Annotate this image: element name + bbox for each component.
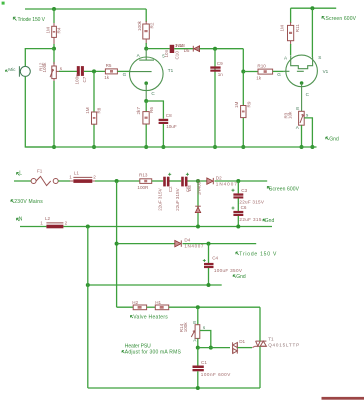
svg-text:R13: R13 — [139, 173, 148, 178]
wire D4 to Triode node — [183, 243, 257, 245]
svg-text:T1: T1 — [168, 68, 174, 73]
wire D3 column — [197, 181, 199, 227]
node junction C9 top — [213, 47, 217, 51]
wire Triode150V top rail — [25, 8, 146, 10]
node junction T1 anode — [144, 47, 148, 51]
capacitor C7 100n — [74, 66, 87, 84]
node junction wiper gate row — [209, 346, 213, 350]
svg-text:Screen 600V: Screen 600V — [269, 186, 300, 192]
svg-text:R5: R5 — [106, 63, 112, 68]
svg-text:F1: F1 — [37, 168, 43, 173]
svg-text:10uF: 10uF — [166, 124, 177, 129]
svg-text:22uF 315V: 22uF 315V — [157, 187, 162, 210]
net label Gnd (C6) — [263, 218, 274, 224]
svg-text:1k: 1k — [256, 75, 262, 80]
wire C6 to neutral — [237, 216, 239, 227]
wire cathode to C8 column — [146, 101, 163, 119]
resistor H1 — [155, 300, 169, 310]
node junction C6 neutral — [236, 225, 240, 229]
node junction D3 neutral — [196, 225, 200, 229]
svg-text:V1: V1 — [323, 69, 329, 74]
wire C4 column — [208, 244, 210, 263]
wire wiper row to C7 — [59, 70, 77, 72]
svg-text:Q4015LTTP: Q4015LTTP — [268, 342, 299, 347]
svg-text:Gnd: Gnd — [265, 218, 275, 224]
wire R2 column from top rail — [145, 9, 147, 22]
svg-text:1N4007: 1N4007 — [216, 181, 237, 186]
svg-text:Triode 150 V: Triode 150 V — [239, 252, 277, 258]
svg-text:1k: 1k — [104, 75, 110, 80]
wire live entry — [14, 180, 31, 182]
svg-text:C7: C7 — [82, 76, 87, 82]
svg-text:C4: C4 — [212, 255, 218, 260]
wire junction to R10 — [243, 71, 258, 73]
svg-text:C6: C6 — [241, 205, 247, 210]
net label N — [17, 216, 23, 222]
wire mid ground rail — [88, 284, 222, 286]
node junction grid row V1 — [241, 70, 245, 74]
wire H2 to H1 — [147, 306, 156, 308]
wire Screen600V top rail — [291, 7, 337, 9]
node junction at R4 top rail — [52, 7, 56, 11]
svg-text:100k: 100k — [42, 62, 47, 73]
svg-text:L: L — [19, 170, 22, 176]
svg-text:S: S — [318, 55, 321, 60]
svg-text:100k: 100k — [183, 322, 188, 333]
node junction C4 top — [207, 242, 211, 246]
svg-text:100nF 600V: 100nF 600V — [201, 372, 231, 377]
svg-text:D2: D2 — [216, 175, 222, 180]
node junction doubler — [196, 179, 200, 183]
capacitor C6 22uF 315V — [232, 205, 262, 222]
svg-text:100n: 100n — [74, 74, 79, 85]
svg-text:R11: R11 — [295, 24, 300, 33]
wire corner down to grid row V1 — [242, 49, 244, 72]
wire heater row start — [117, 306, 134, 308]
node junction pot bottom rail — [52, 145, 56, 149]
wire C8 bottom to rail — [162, 124, 164, 147]
wire C1 column — [197, 348, 199, 366]
wire pot R12 column — [53, 49, 55, 64]
wire D4 row — [117, 243, 175, 245]
stray green pixel top-left — [2, 2, 5, 5]
capacitor C5 22uF 315V — [175, 173, 190, 211]
svg-text:1M: 1M — [280, 25, 285, 32]
resistor R2 100k — [137, 20, 154, 39]
wire R13 to C2 — [152, 180, 164, 182]
resistor R10 1k — [256, 63, 272, 80]
svg-text:10k: 10k — [288, 111, 293, 119]
node junction C9 rail — [213, 145, 217, 149]
wire C9 column — [214, 49, 216, 147]
svg-text:R10: R10 — [257, 63, 266, 68]
svg-text:22uF 315V: 22uF 315V — [239, 199, 264, 204]
potentiometer R3 10k — [284, 106, 309, 130]
diode D4 1N4007 — [175, 238, 204, 249]
wire junction to mic column — [25, 49, 54, 67]
svg-text:C9: C9 — [217, 61, 223, 66]
capacitor C1 100nF 600V — [193, 360, 232, 377]
svg-text:L2: L2 — [45, 216, 51, 221]
node junction neutral drop — [86, 225, 90, 229]
resistor R8 1M — [85, 107, 102, 124]
capacitor C2 22uF 315V — [157, 173, 173, 211]
resistor R4 1M — [46, 26, 62, 37]
wire neutral entry — [20, 226, 46, 228]
svg-text:D3: D3 — [187, 185, 192, 191]
wire neutral drop to bottom rail — [87, 227, 89, 389]
svg-text:H2: H2 — [132, 300, 138, 305]
svg-text:E: E — [193, 320, 196, 325]
wire R9 column — [242, 72, 244, 148]
wire screen column into V1 — [311, 8, 313, 57]
svg-text:T1: T1 — [268, 337, 274, 342]
node junction R9 rail — [241, 145, 245, 149]
node junction mic/pot/R4 — [52, 47, 56, 51]
wire heater bottom rail — [88, 387, 260, 389]
svg-text:100k: 100k — [137, 20, 142, 31]
wire R6 column — [145, 101, 147, 147]
wire D2 to screen node — [215, 180, 268, 182]
diode D5 1N4148 — [175, 43, 200, 53]
pentode V1 — [277, 55, 328, 111]
svg-text:2: 2 — [93, 175, 96, 180]
svg-text:1n: 1n — [218, 72, 224, 77]
decor red bar bottom right — [322, 397, 364, 400]
node junction pot bottom — [196, 346, 200, 350]
svg-text:1: 1 — [69, 175, 72, 180]
wire C7 to R5 — [84, 70, 106, 72]
svg-text:100R: 100R — [137, 185, 149, 190]
node junction R3 rail — [300, 145, 304, 149]
wire triac MT1 down — [259, 346, 261, 388]
svg-text:R9: R9 — [246, 101, 251, 107]
potentiometer R14 100k — [179, 320, 206, 342]
svg-text:C2: C2 — [168, 186, 173, 192]
wire gate row to diac — [198, 347, 230, 349]
resistor R13 100R — [137, 173, 151, 190]
svg-text:D5: D5 — [184, 48, 190, 53]
svg-text:1M: 1M — [85, 107, 90, 114]
svg-text:E: E — [296, 106, 299, 111]
node junction C3 top — [236, 179, 240, 183]
svg-text:R4: R4 — [56, 27, 61, 33]
svg-text:2k7: 2k7 — [136, 107, 141, 115]
svg-text:10n: 10n — [164, 49, 169, 57]
svg-text:C1: C1 — [201, 360, 207, 365]
svg-text:H1: H1 — [155, 300, 161, 305]
resistor R5 1k — [104, 63, 117, 80]
wire R4 column — [53, 9, 55, 23]
resistor R6 2k7 — [136, 107, 154, 124]
wire C1 to bottom rail — [197, 371, 199, 388]
resistor R9 1M — [234, 101, 251, 117]
wire H1 to triac corner — [169, 306, 260, 308]
resistor R11 1M — [280, 24, 300, 41]
svg-text:C10: C10 — [175, 51, 180, 60]
svg-text:Mic: Mic — [8, 67, 16, 72]
wire R14 wiper tap — [200, 331, 211, 348]
inductor L2 — [40, 216, 67, 228]
node junction R8 rail — [92, 145, 96, 149]
wire F1 to L1 — [58, 180, 70, 182]
node junction screen column — [310, 6, 314, 10]
wire top ground rail — [25, 146, 316, 148]
svg-text:1N4007: 1N4007 — [196, 179, 201, 196]
svg-text:R2: R2 — [149, 22, 154, 28]
wire D5 to junction — [200, 48, 244, 50]
resistor H2 — [132, 300, 146, 310]
svg-text:N: N — [19, 216, 23, 222]
capacitor C3 22uF 315V — [232, 181, 265, 204]
fuse F1 — [31, 168, 58, 185]
svg-text:G: G — [277, 72, 281, 77]
svg-text:22uF 315: 22uF 315 — [239, 217, 261, 222]
node junction wiper rail — [310, 145, 314, 149]
svg-text:Adjust for 300 mA RMS: Adjust for 300 mA RMS — [125, 349, 182, 355]
svg-text:1N4007: 1N4007 — [184, 244, 203, 249]
wire R3 bottom to rail — [301, 125, 303, 147]
node junction grid network — [92, 69, 96, 73]
triode T1 — [123, 49, 174, 101]
wire C3 to C6 — [237, 199, 239, 212]
wire anode row to C10 — [146, 48, 170, 50]
net label Valve Heaters — [130, 314, 168, 320]
wire mic bottom to ground rail — [25, 77, 54, 147]
microphone Mic — [6, 66, 31, 77]
wire C10 to D5 — [174, 48, 193, 50]
svg-text:G: G — [123, 72, 127, 77]
node junction gnd rail left — [86, 283, 90, 287]
svg-text:1M: 1M — [234, 101, 239, 108]
wire R3 wiper to rail — [304, 118, 312, 147]
capacitor C10 10n — [164, 45, 179, 60]
wire diac to triac gate — [238, 347, 253, 349]
net label L — [17, 170, 23, 176]
wire C5 to D2 — [188, 180, 207, 182]
net label Gnd (top) — [326, 137, 339, 143]
capacitor C8 10uF — [159, 113, 177, 129]
diode D3 1N4007 (vertical) — [187, 179, 202, 213]
svg-text:Valve Heaters: Valve Heaters — [133, 314, 168, 320]
node junction T1 cathode — [144, 99, 148, 103]
node junction C4 gnd — [207, 283, 211, 287]
wire R10 to V1 grid — [273, 70, 284, 72]
potentiometer R12 100k — [39, 62, 63, 79]
svg-text:D1: D1 — [239, 339, 245, 344]
svg-text:L1: L1 — [74, 171, 80, 176]
net label 230V Mains — [11, 199, 43, 205]
node junction live heater tap — [115, 179, 119, 183]
svg-text:C3: C3 — [241, 188, 247, 193]
node junction R14 top — [196, 305, 200, 309]
wire live drop to heater row — [116, 181, 118, 307]
wire L2 to Gnd end — [63, 226, 272, 228]
svg-text:D4: D4 — [184, 238, 190, 243]
svg-text:230V Mains: 230V Mains — [14, 199, 43, 205]
svg-text:1: 1 — [40, 220, 43, 225]
svg-text:2: 2 — [65, 220, 68, 225]
svg-text:1M: 1M — [46, 27, 51, 34]
diode D2 1N4007 — [207, 175, 237, 186]
node junction C1 rail — [196, 386, 200, 390]
wire R14 bottom — [197, 338, 199, 347]
inductor L1 — [69, 171, 96, 183]
node junction R6 rail — [144, 145, 148, 149]
net label Gnd (C4) — [233, 274, 246, 280]
svg-text:Triode 150 V: Triode 150 V — [18, 17, 46, 23]
net label Screen 600V (top) — [322, 16, 357, 22]
svg-text:C8: C8 — [166, 113, 172, 118]
net label Triode 150 V (top) — [13, 17, 45, 23]
svg-text:Screen 600V: Screen 600V — [326, 16, 357, 22]
node junction C8 rail — [161, 145, 165, 149]
wire triac MT2 up — [259, 307, 261, 341]
wire C2 to C5 — [170, 180, 182, 182]
wire C4 to gnd rail — [208, 268, 210, 285]
wire R14 column — [197, 307, 199, 325]
net label Adjust for 300 mA RMS — [122, 349, 181, 355]
svg-text:R8: R8 — [97, 107, 102, 113]
net label Screen 600V (mid) — [267, 186, 299, 192]
svg-text:100uF 350V: 100uF 350V — [214, 268, 243, 273]
wire R8 column — [93, 71, 95, 147]
svg-text:Gnd: Gnd — [329, 137, 339, 143]
wire R5 to T1 grid — [117, 70, 129, 72]
svg-text:22uF 315V: 22uF 315V — [175, 187, 180, 210]
node junction D4 tap — [115, 242, 119, 246]
diac D1 — [233, 339, 246, 354]
capacitor C4 100uF 350V — [203, 255, 243, 273]
svg-text:Gnd: Gnd — [236, 274, 246, 280]
capacitor C9 1n — [210, 61, 223, 77]
wire R11 column from screen rail — [290, 8, 292, 23]
wire L1 to R13 — [95, 180, 140, 182]
net label Triode 150 V (mid) — [236, 252, 277, 258]
triac T1 Q4015LTTP — [255, 337, 300, 348]
svg-text:R6: R6 — [149, 107, 154, 113]
svg-text:5: 5 — [162, 54, 165, 59]
